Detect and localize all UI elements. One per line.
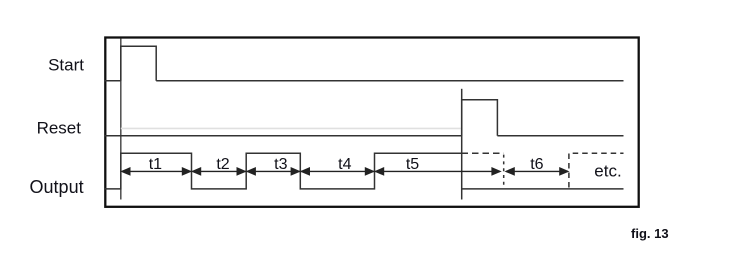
wire Reset low (left of pulse) [104, 135, 461, 137]
trigger line T2 (reset trigger, x=462) [461, 89, 463, 200]
svg-text:t5: t5 [406, 156, 419, 173]
frame box [105, 38, 638, 207]
wire Start low (after pulse) [156, 80, 623, 82]
wire Start low (left stub) [104, 80, 121, 82]
wire etc dashed pulse (rise + top) [569, 153, 624, 187]
wire Output dashed continuation (high) [468, 152, 504, 154]
wire Output dashed falling edge [503, 153, 505, 188]
wire Output waveform (solid part) [104, 153, 468, 189]
wire Reset ghost line (faint, between triggers) [121, 127, 462, 129]
svg-text:Output: Output [30, 177, 84, 197]
svg-text:etc.: etc. [594, 162, 621, 181]
dimension arrow t1 [121, 168, 190, 175]
dimension arrow t2 [192, 168, 246, 175]
trigger line T1 (start trigger, x=121) [120, 39, 122, 200]
svg-text:t2: t2 [216, 156, 229, 173]
svg-text:t4: t4 [338, 156, 351, 173]
wire Reset pulse (rise, high, fall) [462, 100, 498, 136]
svg-text:t6: t6 [530, 156, 543, 173]
svg-text:t1: t1 [149, 156, 162, 173]
dimension arrow t6 [506, 168, 569, 175]
wire Start pulse (rise, high, fall) [121, 46, 156, 80]
dimension arrow t5 [375, 168, 500, 175]
dimension arrow t3 [247, 168, 300, 175]
wire Output low after reset [462, 188, 624, 190]
svg-text:fig. 13: fig. 13 [631, 226, 669, 241]
wire Reset low (after pulse) [497, 135, 623, 137]
dimension arrow t4 [301, 168, 374, 175]
svg-text:t3: t3 [274, 156, 287, 173]
svg-text:Start: Start [48, 55, 84, 74]
svg-text:Reset: Reset [37, 118, 82, 137]
